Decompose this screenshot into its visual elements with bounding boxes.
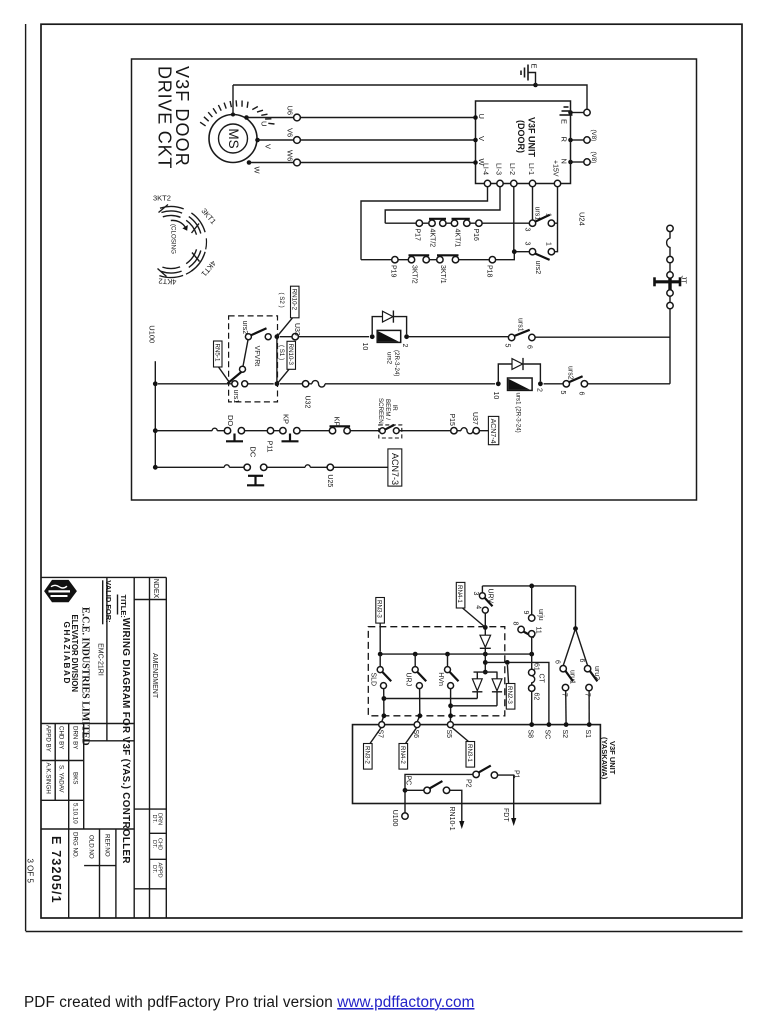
wire right diode to HVn	[451, 705, 497, 707]
svg-text:VFVRt: VFVRt	[253, 346, 260, 367]
pin circle LI-2	[511, 180, 517, 186]
terminal circle N	[584, 159, 590, 165]
svg-text:2: 2	[401, 344, 408, 348]
svg-text:APPD BY: APPD BY	[44, 725, 51, 752]
title block grid	[41, 577, 166, 918]
V3F UNIT YASKAWA box	[353, 725, 601, 804]
terminal circle E	[584, 109, 590, 115]
svg-text:V3F UNIT: V3F UNIT	[527, 117, 537, 158]
terminal circle JT chain mid	[667, 256, 673, 262]
svg-text:OLD.NO: OLD.NO	[88, 835, 95, 859]
pin S2	[564, 722, 569, 727]
contact SLD	[370, 654, 392, 722]
svg-text:( S2 ): ( S2 )	[278, 293, 285, 308]
connector urju 9	[522, 586, 544, 621]
svg-text:KP: KP	[281, 414, 290, 424]
node bus HVn	[445, 652, 450, 657]
svg-text:S. YADAV: S. YADAV	[58, 765, 65, 793]
contact DO	[224, 415, 244, 441]
terminal circle R	[584, 137, 590, 143]
svg-text:U: U	[477, 114, 486, 119]
svg-text:DRN BY: DRN BY	[72, 726, 79, 749]
svg-text:4KT2: 4KT2	[158, 277, 176, 287]
diode pair left	[472, 672, 482, 698]
svg-text:URV: URV	[487, 589, 494, 604]
connector hop row3 a	[224, 465, 229, 468]
svg-text:(V8): (V8)	[590, 130, 597, 142]
svg-text:V: V	[264, 144, 273, 149]
svg-text:3: 3	[472, 592, 479, 596]
terminal circle W6	[294, 159, 301, 166]
connector squiggle row1	[312, 381, 325, 388]
arrow FDT	[511, 818, 516, 826]
label box ACN7-4	[488, 416, 498, 444]
connector hop row2	[212, 428, 217, 430]
wire JT link 2	[669, 296, 671, 302]
svg-text:2: 2	[535, 388, 542, 392]
label box RN4-1	[456, 582, 484, 626]
label box RN3-2	[363, 728, 381, 769]
bus U100	[154, 361, 156, 467]
node RN4-1 attach	[483, 625, 488, 630]
node E pin	[568, 110, 573, 115]
contact urs1 pins 3-1	[523, 207, 554, 232]
wire W phase	[249, 162, 476, 164]
svg-text:urs2: urs2	[385, 352, 392, 365]
wire V phase	[258, 139, 476, 141]
pin circle LI-1	[529, 180, 535, 186]
svg-text:P11: P11	[265, 441, 272, 453]
svg-text:DT.: DT.	[151, 815, 157, 824]
svg-text:RN5-1: RN5-1	[214, 344, 221, 362]
svg-text:BKS: BKS	[72, 772, 79, 784]
label box RN10-3 (S1)	[278, 341, 296, 382]
drawing frame border	[41, 24, 742, 918]
svg-text:E.C.E. INDUSTRIES LIMITED: E.C.E. INDUSTRIES LIMITED	[80, 607, 91, 746]
wire motor top to ground line	[231, 113, 235, 117]
svg-text:urs2: urs2	[534, 261, 541, 275]
svg-text:5: 5	[503, 344, 510, 348]
label box RN3-3	[376, 598, 385, 652]
label box ACN7-3	[388, 449, 402, 486]
wire PC node	[405, 774, 473, 816]
terminal circle JT lower contact	[667, 290, 673, 296]
terminal circle P16	[476, 220, 482, 226]
svg-text:RN3-3: RN3-3	[376, 600, 383, 618]
svg-text:RN4-1: RN4-1	[456, 585, 463, 603]
node HVn dashed edge	[448, 713, 453, 718]
motor MS	[209, 115, 257, 163]
svg-text:3KT2: 3KT2	[153, 194, 171, 203]
sheet outer edge line bottom	[26, 931, 743, 933]
svg-text:62: 62	[533, 693, 540, 701]
contact HVn	[437, 654, 459, 722]
svg-text:DO: DO	[226, 415, 235, 426]
wire row1 mid	[158, 383, 495, 385]
ground symbol inside box at E pin	[560, 107, 573, 115]
svg-text:INDEX: INDEX	[152, 577, 159, 599]
node SLD dashed edge	[382, 713, 387, 718]
dashed box IR BEEM SCREEN	[377, 398, 402, 438]
wire R pin	[571, 139, 584, 141]
terminal circle U33	[292, 334, 298, 340]
node row0 left junction	[275, 334, 280, 339]
svg-text:ACN7-4: ACN7-4	[489, 419, 496, 444]
pushbutton JT cross	[655, 277, 681, 289]
pin S6	[414, 722, 420, 728]
twin diodes bar	[474, 671, 498, 673]
wire LI-2 run	[513, 187, 515, 252]
svg-text:RN10-1: RN10-1	[448, 807, 455, 831]
connector squiggle row2	[461, 428, 473, 434]
cam dashed circle	[186, 238, 206, 274]
terminal circle U100 lower	[402, 813, 408, 819]
svg-text:U: U	[260, 121, 269, 126]
wire left diode to SLD	[384, 698, 477, 700]
wire fuse squiggle JT chain	[667, 232, 670, 257]
node W pin on box	[473, 160, 478, 165]
svg-text:urs2: urs2	[241, 321, 248, 335]
contact 4KT/1	[451, 219, 470, 247]
contact urs1 in VFVR	[228, 366, 248, 403]
svg-text:ACN7-3: ACN7-3	[390, 453, 400, 485]
svg-text:3KT/1: 3KT/1	[439, 265, 446, 284]
connector hop row3 b	[305, 465, 310, 468]
wire row1 right segment	[544, 383, 670, 385]
pin S8	[529, 722, 534, 727]
svg-text:DT.: DT.	[151, 840, 157, 849]
svg-text:E: E	[530, 64, 539, 69]
terminal circle P15	[451, 428, 457, 434]
svg-text:8: 8	[511, 622, 518, 626]
svg-text:S2: S2	[561, 730, 568, 739]
svg-text:LI-3: LI-3	[494, 163, 501, 175]
contact urs2 5-6 row1	[559, 366, 587, 396]
contact 3KT/1	[437, 255, 459, 283]
wire 3KT row P19 P18	[361, 252, 529, 260]
node bus diode stem	[483, 652, 488, 657]
contact 3KT/2	[408, 255, 429, 283]
wire JT chain to rows	[669, 309, 671, 384]
terminal circle U6	[294, 114, 301, 121]
label box RN10-2 (S2)	[278, 286, 299, 335]
terminal circle P17	[416, 220, 422, 226]
diode pair right	[492, 672, 502, 706]
svg-text:P2: P2	[465, 779, 472, 788]
contact P2	[405, 779, 472, 822]
svg-text:DRG NO.: DRG NO.	[72, 832, 79, 859]
svg-text:R: R	[560, 137, 569, 143]
cam diagram closing	[158, 205, 206, 278]
svg-text:SCREEN: SCREEN	[377, 398, 384, 424]
wire urs1 row P16	[385, 222, 529, 224]
node U100 row3	[153, 465, 158, 470]
svg-text:RN2-3: RN2-3	[506, 686, 513, 704]
terminal circle P19	[392, 257, 398, 263]
svg-text:S8: S8	[526, 730, 533, 739]
svg-text:E: E	[560, 119, 569, 124]
svg-text:RN10-3: RN10-3	[287, 344, 294, 366]
svg-text:7: 7	[561, 693, 568, 697]
svg-text:PDF created with pdfFactory Pr: PDF created with pdfFactory Pro trial ve…	[24, 994, 474, 1011]
svg-text:W6: W6	[286, 150, 295, 161]
label box RN2-3	[506, 665, 515, 709]
svg-text:CHD BY: CHD BY	[58, 726, 65, 749]
wire row0 right segment	[535, 336, 670, 338]
svg-text:(2R-3-24): (2R-3-24)	[393, 350, 400, 376]
node PC	[403, 788, 408, 793]
node bus URJ	[413, 652, 418, 657]
node motor terminal V	[255, 138, 260, 143]
svg-text:+15V: +15V	[552, 160, 559, 177]
svg-text:LI-1: LI-1	[527, 163, 534, 175]
svg-text:6: 6	[578, 659, 585, 663]
svg-text:TITLE:: TITLE:	[119, 595, 128, 618]
svg-text:urs1: urs1	[534, 207, 541, 221]
label box RN3-1	[452, 728, 474, 767]
svg-text:S5: S5	[445, 730, 452, 739]
svg-text:urju: urju	[537, 609, 544, 621]
svg-text:E 73205/1: E 73205/1	[49, 836, 63, 904]
wire to ground symbol E	[528, 73, 536, 86]
svg-text:4KT/2: 4KT/2	[428, 229, 435, 248]
bus top	[380, 653, 532, 655]
wire urs2 to urs1 link	[243, 340, 248, 366]
svg-text:REF.NO: REF.NO	[104, 834, 111, 857]
svg-text:SC: SC	[544, 730, 551, 740]
svg-text:(DOOR): (DOOR)	[516, 120, 526, 153]
svg-text:U37: U37	[471, 412, 478, 425]
contact DC	[244, 446, 267, 485]
contact urs2 in VFVR	[241, 321, 271, 340]
wire +15V run	[555, 187, 558, 252]
contact urs2 pins 3-1	[523, 242, 554, 275]
svg-text:U24: U24	[577, 212, 586, 226]
svg-text:5.10.10: 5.10.10	[72, 803, 79, 824]
svg-text:BEEM /: BEEM /	[384, 399, 391, 420]
terminal circle JT chain top	[667, 225, 673, 231]
contact uru1 6-7	[554, 629, 576, 725]
svg-text:SLD: SLD	[370, 673, 377, 687]
dashed box VFVRt	[229, 316, 278, 402]
svg-text:6: 6	[578, 392, 585, 396]
contact KP 2	[329, 417, 350, 434]
pin circle LI-3	[497, 180, 503, 186]
svg-text:6: 6	[554, 660, 561, 664]
diode URV vertical	[480, 627, 491, 672]
svg-text:RN4-2: RN4-2	[399, 746, 406, 764]
wire VFVR bypass link	[276, 337, 278, 384]
svg-text:W: W	[253, 167, 262, 175]
diode bypass urs1	[498, 358, 540, 382]
svg-text:uru1: uru1	[569, 670, 576, 684]
svg-text:KP: KP	[332, 417, 341, 427]
svg-text:3KT/2: 3KT/2	[410, 265, 417, 284]
node LI-2 junction	[512, 249, 517, 254]
svg-text:DC: DC	[249, 446, 258, 457]
contact 8-11	[511, 622, 541, 655]
svg-text:LI-2: LI-2	[508, 163, 515, 175]
terminal circle U25	[327, 464, 333, 470]
node motor terminal W	[247, 160, 252, 165]
terminal circle P18	[489, 257, 495, 263]
svg-text:11: 11	[535, 627, 542, 634]
wire LI-3 run	[385, 187, 500, 224]
svg-text:4: 4	[474, 605, 481, 609]
wire U phase	[247, 117, 476, 119]
contact urs1 5-6 row0	[503, 318, 535, 349]
contact URV	[472, 586, 493, 628]
svg-text:VALID FOR:: VALID FOR:	[104, 580, 113, 622]
node U100 row2	[153, 428, 158, 433]
pin circle LI-4	[484, 180, 490, 186]
terminal circle JT chain bottom	[667, 302, 673, 308]
V3F UNIT (DOOR) box U1	[476, 101, 571, 184]
wire ground line to E pin circle	[536, 85, 588, 109]
motor brush hatch arc	[200, 100, 274, 126]
svg-text:10: 10	[361, 343, 368, 351]
contact 4KT/2	[428, 219, 446, 247]
node motor ground junction	[533, 83, 538, 88]
svg-text:DRIVE CKT: DRIVE CKT	[155, 66, 175, 169]
terminal circle V6	[294, 137, 301, 144]
terminal circle JT upper contact	[667, 272, 673, 278]
node R pin	[568, 138, 573, 143]
terminal circle U37	[473, 428, 479, 434]
svg-text:P19: P19	[389, 265, 396, 278]
wire LI-1 run	[532, 187, 534, 220]
node SLD diode line	[382, 696, 387, 701]
svg-text:FDT: FDT	[502, 808, 509, 822]
wire JT link	[669, 263, 671, 272]
label box RN5-1	[214, 341, 230, 383]
svg-text:MS: MS	[226, 128, 241, 148]
svg-text:U6: U6	[286, 106, 295, 116]
svg-text:P17: P17	[414, 229, 421, 242]
svg-text:S1: S1	[584, 730, 591, 739]
node rail urju	[529, 584, 534, 589]
node motor terminal U	[244, 115, 249, 120]
wire row2	[155, 430, 488, 432]
pin S5	[447, 722, 453, 728]
svg-text:RN3-2: RN3-2	[363, 746, 370, 764]
svg-text:(V8): (V8)	[590, 152, 597, 164]
ground wire E horizontal	[233, 84, 536, 86]
node HVn diode line	[448, 703, 453, 708]
svg-text:LI-4: LI-4	[482, 163, 489, 175]
svg-text:CT: CT	[537, 674, 544, 684]
wire row3	[155, 466, 388, 468]
wire rail right drop	[575, 586, 577, 629]
svg-text:1: 1	[544, 242, 551, 246]
pin SC	[547, 722, 552, 727]
svg-text:RN10-2: RN10-2	[290, 289, 297, 311]
svg-text:PC: PC	[405, 776, 412, 786]
svg-text:N: N	[560, 159, 569, 164]
label box RN4-2	[399, 728, 417, 769]
svg-text:P15: P15	[448, 414, 455, 427]
svg-text:V: V	[477, 136, 486, 141]
svg-text:5: 5	[559, 391, 566, 395]
node URJ dashed edge	[417, 713, 422, 718]
svg-text:urs1: urs1	[232, 390, 239, 404]
svg-text:(YASKAWA): (YASKAWA)	[600, 737, 609, 780]
svg-text:IR: IR	[391, 405, 398, 412]
node diode stem mid	[483, 660, 488, 665]
svg-text:HVn: HVn	[437, 672, 444, 686]
node twin diode top	[483, 670, 488, 675]
node U100 row1	[153, 381, 158, 386]
node bus S8	[529, 652, 534, 657]
node U pin on box	[473, 115, 478, 120]
wire stem to SC	[485, 662, 549, 724]
svg-text:3 OF 5: 3 OF 5	[26, 859, 35, 884]
terminal circle P11	[267, 428, 273, 434]
schematic enclosure box V3F DOOR DRIVE CKT	[132, 59, 697, 500]
logo ECE hexagon	[44, 580, 77, 602]
svg-text:WIRING DIAGRAM FOR V3F (YAS.): WIRING DIAGRAM FOR V3F (YAS.) CONTROLLER	[120, 618, 131, 864]
rectifier block urs2 (2R-3-24)	[361, 330, 409, 376]
contact uru2 6-7	[576, 629, 601, 725]
svg-text:3: 3	[523, 242, 530, 246]
connector CT 61-62	[529, 654, 545, 725]
svg-text:U100: U100	[391, 810, 398, 827]
svg-text:P16: P16	[472, 229, 479, 242]
svg-text:RN3-1: RN3-1	[466, 744, 473, 762]
svg-text:P18: P18	[485, 265, 492, 278]
wire row0 mid	[280, 336, 509, 338]
closing arrow	[171, 220, 186, 227]
svg-text:( S1 ): ( S1 )	[278, 345, 285, 360]
svg-text:U100: U100	[147, 325, 156, 343]
node bus SLD	[378, 652, 383, 657]
svg-text:10: 10	[492, 392, 499, 400]
ground symbol E	[521, 65, 528, 81]
svg-text:GHAZIABAD: GHAZIABAD	[62, 622, 71, 686]
contact URJ	[405, 654, 427, 722]
svg-text:DT.: DT.	[151, 865, 157, 874]
svg-text:6: 6	[525, 345, 532, 349]
contact KP	[280, 414, 300, 441]
rectifier block urs1 (2R-3-24)	[492, 378, 543, 433]
wire E circle to box	[571, 112, 584, 114]
svg-text:9: 9	[522, 611, 529, 615]
svg-text:urs2: urs2	[566, 366, 573, 380]
node N pin	[568, 160, 573, 165]
rail top yaskawa	[482, 585, 575, 587]
contact P1	[473, 766, 519, 819]
svg-text:4KT/1: 4KT/1	[453, 229, 460, 248]
node RN2-3 attach	[505, 660, 510, 665]
pin circle +15V	[554, 180, 560, 186]
svg-text:U33: U33	[293, 323, 300, 336]
node uru split	[573, 626, 578, 631]
svg-text:1: 1	[544, 213, 551, 217]
node row1 left junction	[275, 381, 280, 386]
svg-text:U32: U32	[304, 396, 311, 409]
svg-text:urs1: urs1	[516, 318, 523, 332]
svg-text:V6: V6	[286, 128, 295, 137]
node V pin on box	[473, 138, 478, 143]
svg-text:61: 61	[533, 663, 540, 671]
svg-text:EMC-21RI: EMC-21RI	[96, 643, 103, 676]
sheet outer edge line left	[25, 24, 27, 931]
pin S7	[379, 722, 385, 728]
svg-text:JT: JT	[680, 276, 689, 285]
terminal circle U32	[302, 381, 308, 387]
wire N pin	[571, 161, 584, 163]
svg-text:U25: U25	[326, 474, 333, 487]
